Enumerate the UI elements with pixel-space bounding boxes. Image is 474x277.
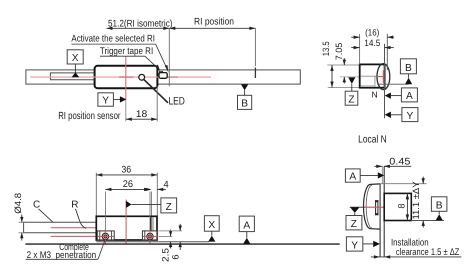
end view interior lines	[361, 76, 377, 87]
dimension 26	[105, 179, 150, 229]
svg-text:Trigger tape RI: Trigger tape RI	[100, 46, 153, 57]
datum X (bottom view)	[204, 216, 219, 242]
svg-text:A: A	[349, 172, 356, 183]
dimension 6	[159, 224, 183, 260]
svg-text:Ø4.8: Ø4.8	[13, 193, 23, 214]
label: Trigger tape RI	[100, 46, 160, 71]
label R	[71, 200, 86, 229]
tape slot in boss	[375, 200, 379, 215]
svg-text:RI position: RI position	[194, 17, 234, 28]
datum Y (end view)	[385, 108, 418, 122]
svg-text:18: 18	[136, 109, 148, 120]
datum Z (bottom view)	[126, 198, 176, 213]
boss face line V1	[379, 184, 381, 257]
svg-text:A: A	[243, 220, 250, 231]
datum B (top view, below rail)	[238, 84, 252, 109]
datum Y (rear view)	[346, 237, 380, 252]
dimension 0.45	[374, 156, 411, 168]
dimension 8	[396, 193, 409, 220]
centerline (rear view)	[350, 206, 384, 208]
cable outline	[24, 222, 97, 233]
dimension 13.5	[321, 41, 334, 87]
RI position extension line	[254, 28, 256, 78]
svg-text:B: B	[405, 63, 412, 74]
LED leader line	[144, 80, 168, 103]
datum A (rear view)	[345, 169, 384, 183]
svg-text:Z: Z	[166, 202, 172, 213]
dimension 4	[146, 179, 170, 215]
datum B (rear view)	[431, 197, 447, 221]
sensor body (side view)	[95, 66, 158, 88]
svg-text:R: R	[71, 200, 78, 211]
svg-text:X: X	[208, 220, 215, 231]
dimension 18	[126, 86, 157, 121]
svg-text:A: A	[406, 91, 413, 102]
label C	[33, 200, 53, 223]
mounting boss right	[142, 231, 157, 240]
svg-text:B: B	[436, 201, 443, 212]
mounting surface line x=384.5	[384, 44, 386, 118]
body red vertical centerline	[125, 56, 127, 121]
dimension 36	[96, 165, 157, 216]
body internal right edges	[151, 217, 153, 240]
svg-text:13.5: 13.5	[321, 41, 331, 56]
dimension (16)	[351, 28, 394, 39]
tape red line	[51, 235, 97, 237]
node N label	[372, 90, 378, 100]
rail mounting surface V2	[383, 166, 385, 256]
datum A (bottom view)	[239, 216, 254, 244]
dimension 2.5	[159, 230, 173, 262]
dimension dia 4.8	[13, 193, 25, 241]
trigger tape RI element	[159, 71, 167, 78]
installation clearance dimension line	[371, 255, 462, 258]
dimension 11.1 - dY	[411, 177, 425, 228]
dimension RI position	[169, 17, 255, 30]
label: Complete / 2 x M3 penetration	[26, 241, 105, 261]
extension lines left of end view	[327, 65, 359, 88]
svg-text:Y: Y	[407, 111, 414, 122]
long base line	[25, 243, 339, 245]
dimension 51.2 (RI isometric)	[107, 19, 173, 30]
datum A (end view)	[385, 88, 418, 102]
trigger tape slot in rail	[50, 73, 94, 80]
body red vertical centerline (bottom view)	[125, 200, 127, 244]
rail pink centerline	[30, 76, 211, 78]
cable boss (rear view)	[364, 184, 381, 229]
Local N caption	[358, 135, 387, 146]
cable grommet ellipse (end view)	[377, 64, 390, 90]
extension line x=387.3 for (16)	[386, 34, 388, 70]
hole M3 left	[98, 229, 114, 244]
datum B (end view)	[400, 59, 416, 84]
svg-text:B: B	[241, 99, 248, 110]
svg-text:4: 4	[163, 179, 169, 190]
rail surface thin line	[96, 241, 209, 243]
svg-text:Activate the selected RI: Activate the selected RI	[71, 33, 155, 44]
svg-text:6: 6	[171, 254, 181, 259]
datum X (top view)	[67, 50, 83, 77]
svg-text:14.5: 14.5	[364, 38, 380, 48]
extension line x=359.6 above body	[359, 34, 361, 64]
datum Z (end view)	[345, 77, 358, 105]
datum Z (rear view)	[346, 207, 362, 230]
svg-text:7.05: 7.05	[334, 43, 344, 61]
svg-text:Y: Y	[102, 96, 109, 107]
dimension 14.5	[351, 38, 394, 49]
mounting boss left	[97, 231, 114, 240]
svg-text:Y: Y	[351, 240, 358, 251]
hole M3 right	[143, 229, 158, 244]
body bottom extension line	[411, 220, 444, 222]
svg-text:Z: Z	[351, 219, 357, 230]
extension for 0.45	[381, 166, 383, 184]
LED circle	[139, 74, 145, 80]
svg-text:8: 8	[396, 203, 406, 208]
svg-text:2.5: 2.5	[161, 248, 171, 262]
LED label	[169, 95, 186, 107]
dimension 7.05	[334, 43, 346, 84]
svg-text:36: 36	[121, 165, 131, 176]
label: RI position sensor	[58, 111, 121, 122]
svg-text:Z: Z	[348, 95, 354, 106]
rail (side view)	[26, 70, 300, 84]
svg-text:clearance 1.5 ± ΔZ: clearance 1.5 ± ΔZ	[396, 247, 460, 258]
sensor body (end view)	[360, 64, 385, 87]
svg-text:26: 26	[123, 179, 133, 190]
svg-text:0.45: 0.45	[389, 156, 410, 167]
datum Y (top view)	[98, 93, 126, 107]
boss top extension line	[380, 183, 427, 185]
svg-text:RI position sensor: RI position sensor	[58, 111, 121, 122]
label: Activate the selected RI	[71, 33, 168, 72]
sensor body (bottom view)	[96, 216, 157, 240]
extension line for 51.2 / RI position at x=169.3	[168, 28, 170, 86]
mounting bracket body (rear view)	[384, 193, 411, 220]
svg-text:N: N	[372, 90, 378, 100]
cable red centerline	[51, 227, 97, 229]
svg-text:LED: LED	[169, 95, 186, 107]
svg-text:51.2(RI isometric): 51.2(RI isometric)	[108, 19, 173, 30]
svg-text:X: X	[72, 53, 79, 64]
label: Installation clearance 1.5 +- dZ	[391, 238, 460, 258]
svg-text:11.1 ±ΔY: 11.1 ±ΔY	[411, 182, 421, 220]
svg-text:Local N: Local N	[358, 135, 387, 146]
datum surface line y=84.2 (end view)	[377, 83, 409, 85]
red center ticks in ellipse	[376, 70, 385, 83]
svg-text:(16): (16)	[365, 28, 379, 38]
